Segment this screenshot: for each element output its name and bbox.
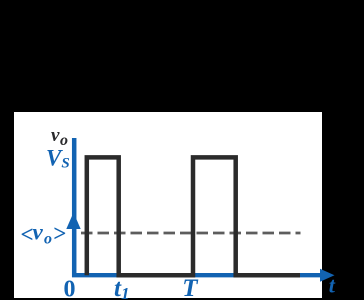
svg-text:o: o bbox=[44, 231, 52, 248]
svg-text:v: v bbox=[33, 220, 44, 245]
svg-text:>: > bbox=[53, 221, 66, 246]
svg-text:t: t bbox=[329, 273, 336, 298]
svg-text:T: T bbox=[182, 275, 199, 300]
svg-text:0: 0 bbox=[64, 277, 76, 300]
